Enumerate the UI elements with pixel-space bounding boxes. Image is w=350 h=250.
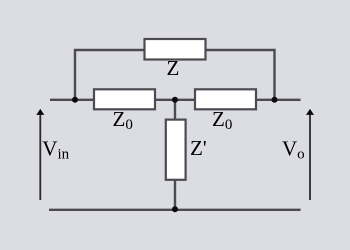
arrow Vo (right, pointing up) bbox=[306, 109, 314, 200]
svg-text:Z': Z' bbox=[190, 136, 207, 160]
wire top horizontal (node A to node B via Z) bbox=[75, 50, 275, 100]
impedance Z0 right box bbox=[195, 89, 256, 109]
node dot left junction bbox=[72, 97, 78, 103]
wire bottom ground rail bbox=[49, 209, 301, 211]
impedance Z (top box) bbox=[145, 39, 206, 60]
impedance Z' (vertical box) bbox=[166, 120, 186, 180]
wire middle horizontal input rail bbox=[50, 99, 301, 101]
node dot right junction bbox=[272, 97, 278, 103]
svg-text:Z: Z bbox=[167, 56, 180, 80]
impedance Z0 left box bbox=[94, 89, 155, 109]
node dot middle junction bbox=[172, 97, 178, 103]
wire middle vertical branch to Z' bbox=[174, 100, 176, 210]
arrow Vin (left, pointing up) bbox=[36, 109, 44, 200]
node dot ground junction bbox=[172, 206, 178, 212]
